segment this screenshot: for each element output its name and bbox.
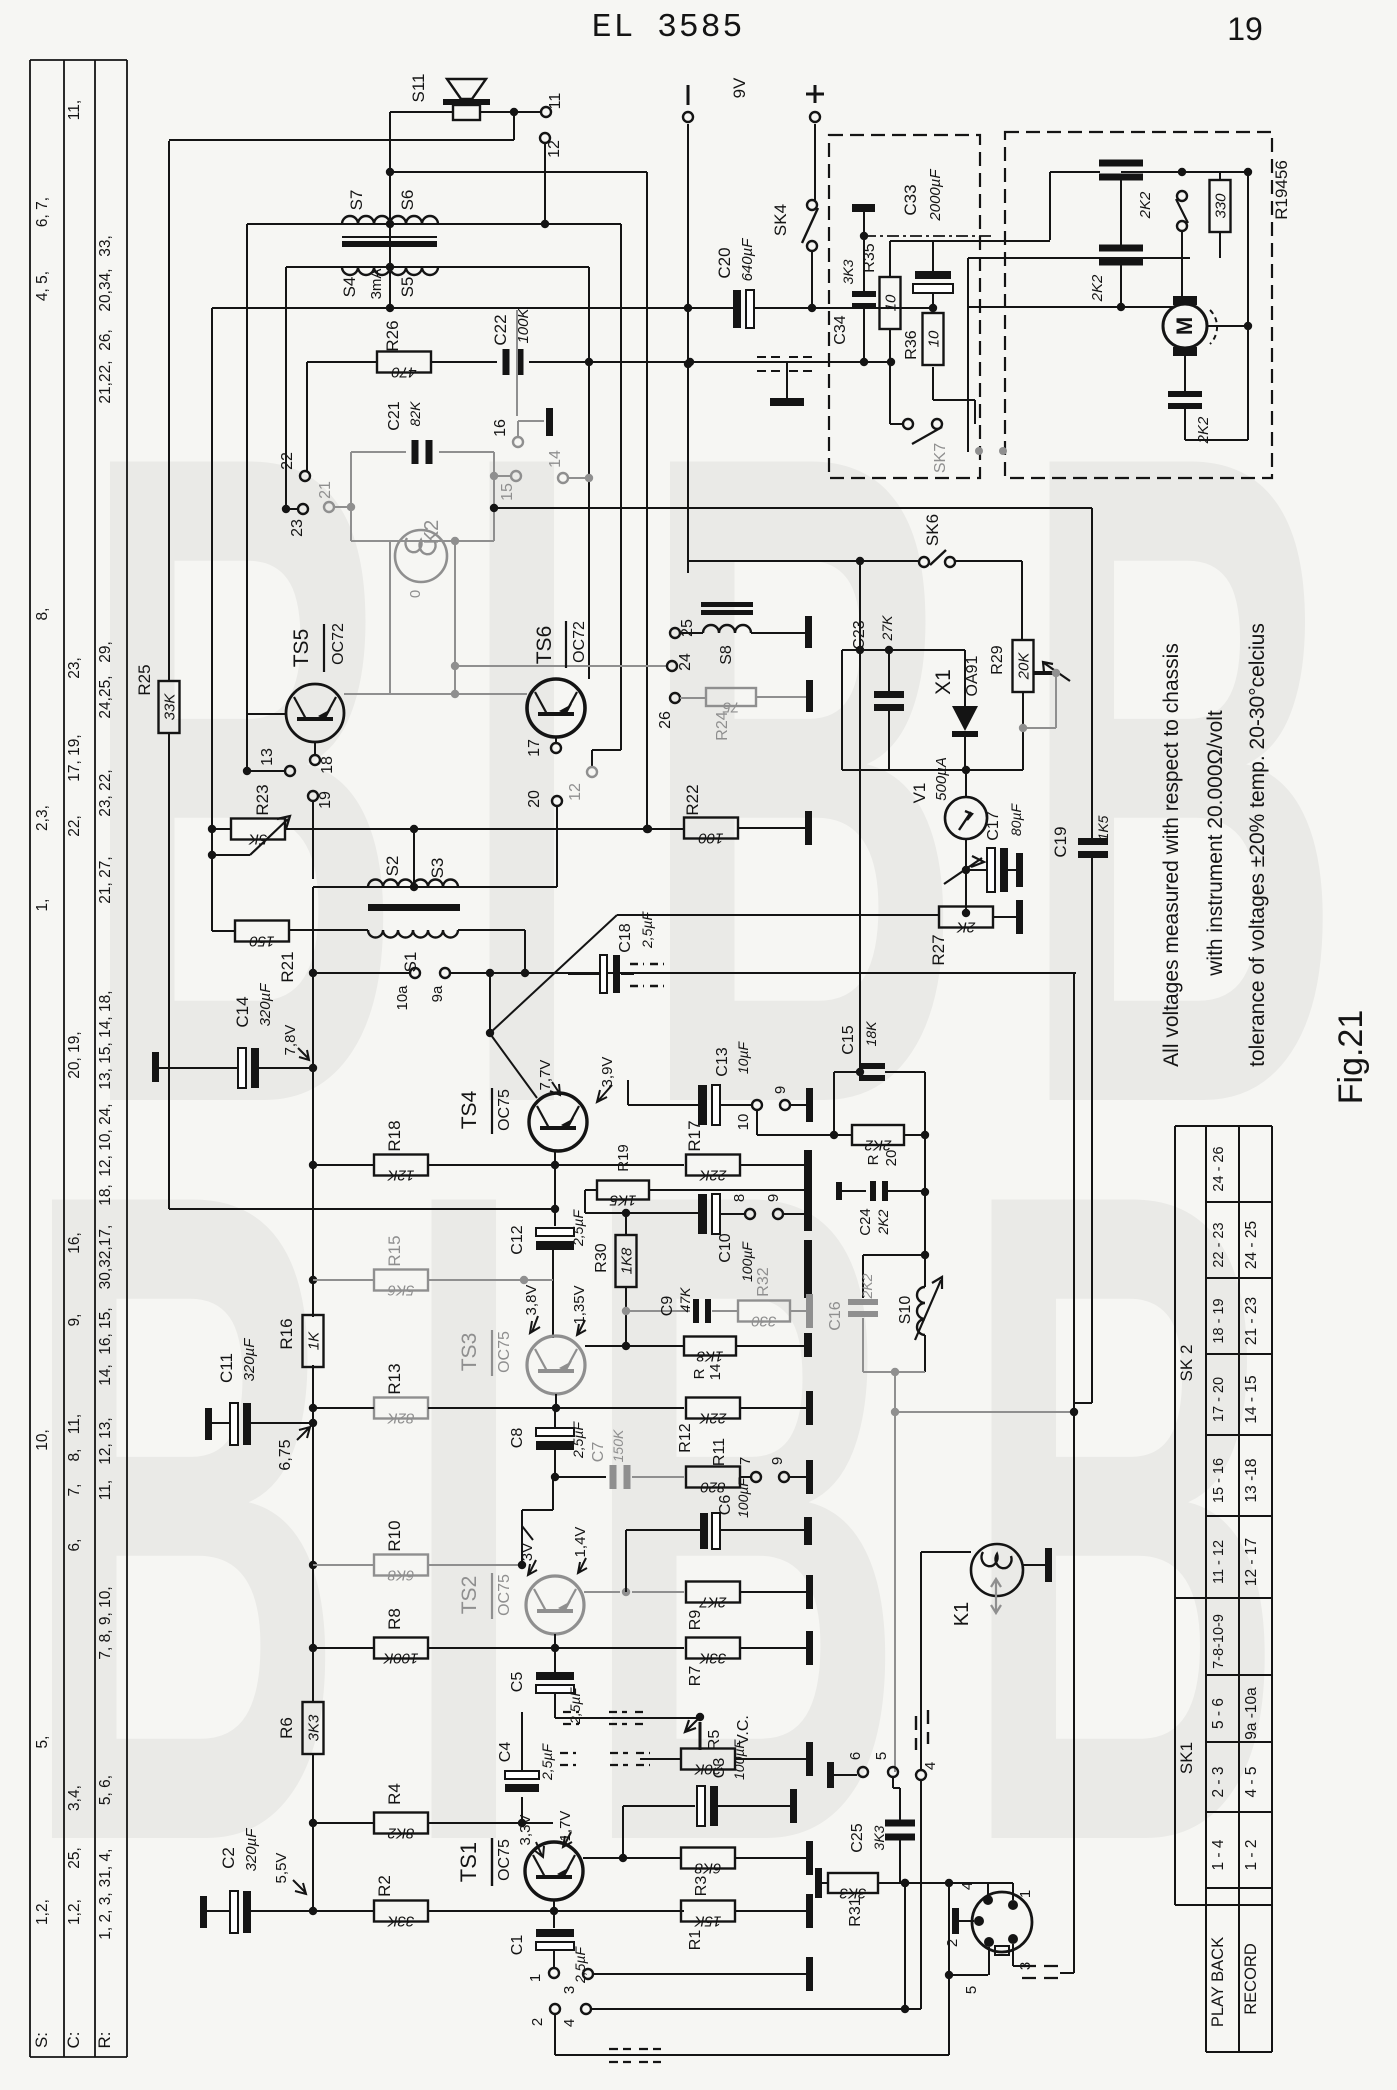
svg-text:13 -18: 13 -18 (1243, 1459, 1260, 1503)
svg-text:OC72: OC72 (330, 623, 347, 665)
svg-text:TS6: TS6 (533, 626, 556, 665)
svg-text:500µA: 500µA (933, 757, 950, 801)
svg-text:12: 12 (546, 140, 563, 158)
svg-text:24,25,: 24,25, (97, 675, 114, 718)
svg-text:1: 1 (1017, 1890, 1034, 1898)
svg-text:3,9V: 3,9V (599, 1057, 616, 1088)
svg-text:K2: K2 (421, 520, 443, 544)
svg-text:22: 22 (279, 452, 296, 470)
svg-text:82K: 82K (387, 1410, 415, 1427)
svg-text:26: 26 (657, 711, 674, 729)
svg-text:100µF: 100µF (739, 1241, 755, 1282)
svg-text:23, 22,: 23, 22, (97, 769, 114, 816)
svg-text:C14: C14 (233, 996, 252, 1027)
svg-text:1, 2, 3,: 1, 2, 3, (97, 1892, 114, 1939)
svg-text:21 - 23: 21 - 23 (1243, 1297, 1260, 1345)
svg-text:2,5µF: 2,5µF (539, 1743, 555, 1782)
svg-text:16,: 16, (66, 1232, 83, 1254)
svg-text:1,2,: 1,2, (34, 1899, 51, 1925)
svg-text:11,: 11, (97, 1480, 114, 1500)
svg-text:3: 3 (561, 1986, 578, 1994)
svg-text:16: 16 (492, 419, 509, 437)
svg-text:K1: K1 (951, 1602, 973, 1626)
svg-text:9V: 9V (730, 77, 749, 98)
svg-text:OC75: OC75 (496, 1574, 513, 1616)
svg-text:TS4: TS4 (458, 1090, 481, 1129)
svg-text:2K: 2K (956, 919, 976, 936)
svg-text:2K2: 2K2 (1137, 191, 1154, 219)
svg-text:14: 14 (707, 1364, 724, 1381)
svg-text:7,7V: 7,7V (537, 1060, 554, 1091)
svg-text:2,5µF: 2,5µF (570, 1421, 586, 1460)
svg-text:320µF: 320µF (243, 1828, 260, 1872)
svg-text:R12: R12 (677, 1423, 694, 1452)
svg-text:with instrument 20.000Ω/volt: with instrument 20.000Ω/volt (1204, 710, 1227, 977)
svg-text:9: 9 (765, 1194, 782, 1202)
svg-text:6,75: 6,75 (277, 1439, 294, 1470)
svg-text:15: 15 (499, 483, 516, 501)
svg-text:12 - 17: 12 - 17 (1243, 1538, 1260, 1586)
svg-text:22 - 23: 22 - 23 (1211, 1222, 1227, 1267)
svg-text:1,: 1, (34, 899, 51, 912)
svg-text:7, 8, 9, 10,: 7, 8, 9, 10, (97, 1586, 114, 1659)
svg-text:640µF: 640µF (739, 238, 756, 282)
svg-text:C7: C7 (590, 1442, 607, 1463)
svg-text:11,: 11, (66, 100, 83, 120)
svg-text:1K5: 1K5 (609, 1192, 636, 1209)
svg-text:20K: 20K (1016, 652, 1033, 681)
svg-text:9: 9 (769, 1457, 786, 1465)
svg-text:C11: C11 (217, 1353, 236, 1383)
svg-text:TS1: TS1 (456, 1842, 481, 1882)
svg-text:4: 4 (922, 1762, 939, 1770)
svg-text:C10: C10 (717, 1233, 734, 1262)
svg-text:R18: R18 (385, 1120, 404, 1151)
svg-text:12K: 12K (387, 1167, 415, 1184)
svg-text:4: 4 (561, 2019, 578, 2027)
svg-text:R8: R8 (385, 1608, 404, 1630)
svg-text:5K: 5K (248, 831, 267, 848)
svg-text:2K2: 2K2 (859, 1273, 875, 1299)
svg-text:1,4V: 1,4V (572, 1527, 589, 1558)
svg-text:S:: S: (32, 2032, 51, 2048)
svg-text:3,4,: 3,4, (66, 1785, 83, 1811)
svg-text:TS5: TS5 (290, 629, 313, 668)
svg-text:R27: R27 (929, 934, 948, 965)
svg-text:6K8: 6K8 (387, 1567, 414, 1584)
svg-text:R35: R35 (861, 243, 878, 272)
svg-text:R32: R32 (755, 1267, 772, 1296)
svg-text:33,: 33, (97, 235, 114, 257)
svg-text:S5: S5 (398, 277, 417, 298)
svg-text:100: 100 (698, 830, 724, 847)
svg-text:S10: S10 (897, 1296, 914, 1325)
svg-text:1 - 4: 1 - 4 (1210, 1839, 1227, 1870)
svg-text:100µF: 100µF (735, 1477, 751, 1518)
svg-text:6, 7,: 6, 7, (34, 197, 51, 227)
svg-text:20: 20 (526, 790, 543, 808)
svg-text:17: 17 (526, 739, 543, 757)
svg-text:S2: S2 (383, 856, 402, 877)
svg-text:S8: S8 (718, 645, 735, 665)
svg-text:9,: 9, (66, 1314, 83, 1327)
svg-text:tolerance of voltages ±20% te: tolerance of voltages ±20% temp. 20-30°c… (1246, 623, 1269, 1067)
svg-text:5,: 5, (34, 1736, 51, 1749)
svg-text:C2: C2 (219, 1847, 238, 1869)
svg-text:C19: C19 (1051, 826, 1070, 857)
svg-text:X1: X1 (932, 669, 955, 695)
svg-text:20,34,: 20,34, (97, 268, 114, 311)
svg-text:22K: 22K (699, 1167, 728, 1184)
svg-text:SK4: SK4 (771, 204, 790, 236)
svg-text:S4: S4 (340, 277, 359, 298)
svg-text:12, 13,: 12, 13, (97, 1417, 114, 1464)
svg-text:5: 5 (873, 1752, 890, 1760)
svg-text:30,32,17,: 30,32,17, (97, 1225, 114, 1290)
svg-text:R13: R13 (385, 1363, 404, 1394)
svg-text:R: R (865, 1154, 882, 1165)
svg-text:320µF: 320µF (241, 1338, 258, 1382)
svg-text:7: 7 (737, 1457, 754, 1465)
svg-text:5K6: 5K6 (387, 1282, 414, 1299)
svg-text:3,3V: 3,3V (517, 1815, 534, 1846)
svg-text:1: 1 (527, 1974, 544, 1982)
svg-text:2,3,: 2,3, (34, 805, 51, 831)
svg-text:C13: C13 (714, 1047, 731, 1076)
svg-text:29,: 29, (97, 641, 114, 663)
svg-text:2000µF: 2000µF (927, 169, 944, 222)
svg-text:21,22,: 21,22, (97, 360, 114, 403)
svg-text:6: 6 (847, 1752, 864, 1760)
svg-text:330: 330 (751, 1313, 777, 1330)
svg-text:21, 27,: 21, 27, (97, 856, 114, 903)
svg-text:23: 23 (289, 519, 306, 537)
svg-text:33K: 33K (387, 1913, 415, 1930)
svg-text:14,: 14, (97, 1364, 114, 1386)
svg-text:BIBB: BIBB (22, 999, 1341, 2036)
svg-text:1K: 1K (306, 1331, 323, 1350)
svg-text:S7: S7 (347, 190, 366, 211)
svg-text:14: 14 (547, 450, 564, 468)
svg-text:RECORD: RECORD (1242, 1943, 1260, 2015)
svg-text:25: 25 (679, 619, 696, 637)
svg-text:2,5µF: 2,5µF (570, 1209, 586, 1248)
svg-text:8: 8 (731, 1194, 748, 1202)
svg-text:SK7: SK7 (932, 443, 949, 473)
svg-text:24: 24 (677, 653, 694, 671)
svg-text:18: 18 (319, 756, 336, 774)
svg-text:5 - 6: 5 - 6 (1210, 1698, 1227, 1729)
svg-text:S6: S6 (398, 190, 417, 211)
svg-text:C23: C23 (851, 620, 868, 649)
svg-text:R24: R24 (714, 711, 731, 740)
svg-text:15K: 15K (694, 1913, 722, 1930)
svg-text:C1: C1 (509, 1935, 526, 1956)
svg-text:S3: S3 (428, 858, 447, 879)
svg-text:SK 2: SK 2 (1177, 1345, 1196, 1382)
svg-text:22K: 22K (699, 1410, 728, 1427)
svg-text:3K3: 3K3 (840, 259, 856, 284)
svg-text:20: 20 (883, 1150, 900, 1167)
svg-text:R2: R2 (375, 1875, 394, 1897)
svg-text:C17: C17 (985, 811, 1002, 840)
svg-text:10,: 10, (34, 1429, 51, 1451)
svg-text:S11: S11 (409, 74, 428, 103)
svg-text:R16: R16 (277, 1318, 296, 1349)
svg-text:C22: C22 (491, 314, 510, 345)
svg-text:C12: C12 (509, 1225, 526, 1254)
svg-text:33K: 33K (162, 693, 179, 721)
svg-text:R29: R29 (989, 645, 1006, 674)
svg-text:SK6: SK6 (923, 514, 942, 546)
svg-text:2: 2 (944, 1939, 961, 1947)
svg-text:17 - 20: 17 - 20 (1211, 1377, 1227, 1422)
svg-text:R31: R31 (847, 1897, 864, 1926)
svg-text:C4: C4 (497, 1742, 514, 1763)
svg-text:5,5V: 5,5V (273, 1853, 290, 1884)
svg-text:100µF: 100µF (731, 1739, 747, 1780)
svg-text:C6: C6 (717, 1495, 734, 1516)
svg-text:11,: 11, (66, 1414, 83, 1434)
svg-text:1K5: 1K5 (1095, 815, 1111, 840)
svg-text:5: 5 (963, 1986, 980, 1994)
svg-text:470: 470 (391, 364, 417, 381)
svg-text:18,: 18, (97, 1184, 114, 1206)
svg-text:31, 4,: 31, 4, (97, 1849, 114, 1888)
svg-text:R:: R: (95, 2032, 114, 2049)
svg-text:R26: R26 (383, 320, 402, 351)
svg-text:OC72: OC72 (571, 621, 588, 663)
svg-text:R15: R15 (385, 1235, 404, 1266)
svg-text:2,5µF: 2,5µF (639, 911, 655, 950)
svg-text:26,: 26, (97, 329, 114, 351)
svg-text:C24: C24 (857, 1208, 874, 1236)
svg-text:C15: C15 (840, 1025, 857, 1054)
svg-text:7,: 7, (66, 1484, 83, 1497)
svg-text:R22: R22 (683, 784, 702, 815)
svg-text:1K8: 1K8 (619, 1247, 636, 1274)
svg-text:TS2: TS2 (458, 1576, 481, 1615)
svg-text:3mA: 3mA (368, 269, 385, 300)
svg-text:Fig.21: Fig.21 (1332, 1010, 1370, 1105)
svg-text:PLAY BACK: PLAY BACK (1209, 1937, 1227, 2027)
svg-text:1,2,: 1,2, (66, 1899, 83, 1925)
svg-text:33K: 33K (699, 1650, 727, 1667)
svg-text:R25: R25 (135, 664, 154, 695)
svg-text:R11: R11 (711, 1438, 728, 1466)
svg-text:2 - 3: 2 - 3 (1210, 1766, 1227, 1797)
svg-text:12, 10, 24,: 12, 10, 24, (97, 1103, 114, 1176)
svg-text:R5: R5 (706, 1730, 723, 1751)
svg-text:R19: R19 (615, 1144, 632, 1172)
svg-text:14 - 15: 14 - 15 (1243, 1375, 1260, 1423)
svg-text:R6: R6 (277, 1717, 296, 1739)
svg-text:8,: 8, (34, 608, 51, 621)
svg-text:TS3: TS3 (458, 1333, 481, 1372)
svg-text:C8: C8 (509, 1428, 526, 1449)
svg-text:0: 0 (407, 590, 424, 598)
svg-text:8K2: 8K2 (387, 1825, 414, 1842)
svg-text:2K2: 2K2 (875, 1209, 891, 1235)
svg-text:1 - 2: 1 - 2 (1243, 1839, 1260, 1870)
svg-text:C21: C21 (386, 401, 403, 430)
svg-text:7-8-10-9: 7-8-10-9 (1211, 1614, 1227, 1669)
svg-text:100K: 100K (382, 1650, 418, 1667)
svg-text:10µF: 10µF (735, 1040, 751, 1074)
svg-text:OC75: OC75 (496, 1089, 513, 1131)
svg-text:R3: R3 (693, 1876, 710, 1897)
svg-text:R30: R30 (593, 1243, 610, 1272)
svg-text:3,8V: 3,8V (523, 1285, 540, 1316)
svg-text:R9: R9 (687, 1610, 704, 1631)
svg-text:18 - 19: 18 - 19 (1211, 1298, 1227, 1343)
svg-text:2K2: 2K2 (1089, 274, 1106, 302)
svg-text:10: 10 (883, 294, 900, 311)
svg-text:4, 5,: 4, 5, (34, 271, 51, 301)
svg-text:3K3: 3K3 (306, 1714, 323, 1741)
svg-text:C9: C9 (659, 1296, 676, 1317)
svg-text:3K3: 3K3 (871, 1825, 887, 1850)
svg-text:C34: C34 (832, 315, 849, 344)
svg-text:1,35V: 1,35V (571, 1285, 588, 1324)
svg-text:820: 820 (700, 1479, 726, 1496)
svg-text:OA91: OA91 (964, 655, 981, 696)
svg-text:C3: C3 (711, 1758, 728, 1779)
svg-text:2: 2 (529, 2018, 546, 2026)
svg-text:80µF: 80µF (1008, 802, 1024, 836)
svg-text:12: 12 (567, 783, 584, 801)
svg-text:R10: R10 (385, 1520, 404, 1551)
svg-text:R19456: R19456 (1272, 160, 1291, 220)
svg-text:16, 15,: 16, 15, (97, 1307, 114, 1354)
svg-text:24 - 26: 24 - 26 (1211, 1146, 1227, 1191)
svg-text:24 - 25: 24 - 25 (1243, 1221, 1260, 1269)
svg-text:V1: V1 (910, 783, 929, 804)
svg-text:11 - 12: 11 - 12 (1211, 1540, 1227, 1584)
svg-text:150: 150 (249, 933, 275, 950)
svg-text:21: 21 (317, 481, 334, 499)
svg-text:C25: C25 (849, 1823, 866, 1852)
svg-text:R7: R7 (687, 1666, 704, 1687)
svg-text:7,8V: 7,8V (282, 1025, 299, 1056)
svg-text:9: 9 (772, 1086, 789, 1094)
svg-text:18K: 18K (863, 1021, 879, 1047)
svg-text:R1: R1 (687, 1930, 704, 1951)
svg-text:19: 19 (317, 791, 334, 809)
svg-text:EL 3585: EL 3585 (592, 9, 745, 46)
svg-text:OC75: OC75 (496, 1331, 513, 1373)
svg-text:13, 15, 14, 18,: 13, 15, 14, 18, (97, 990, 114, 1089)
svg-text:47K: 47K (677, 1287, 693, 1313)
svg-text:6K8: 6K8 (694, 1860, 721, 1877)
svg-text:19: 19 (1227, 11, 1263, 47)
svg-text:9a -10a: 9a -10a (1243, 1687, 1260, 1740)
svg-text:R4: R4 (385, 1783, 404, 1805)
svg-text:3V: 3V (519, 1543, 536, 1561)
svg-text:330: 330 (1213, 193, 1230, 219)
svg-text:82K: 82K (407, 401, 423, 427)
svg-text:2,5µF: 2,5µF (567, 1687, 583, 1726)
svg-text:C5: C5 (509, 1672, 526, 1693)
svg-text:23,: 23, (66, 657, 83, 679)
svg-text:R21: R21 (278, 951, 297, 982)
svg-text:9a: 9a (429, 985, 446, 1002)
svg-text:C18: C18 (617, 923, 634, 952)
svg-text:22,: 22, (66, 815, 83, 837)
svg-text:All voltages measured with res: All voltages measured with respect to ch… (1160, 643, 1183, 1067)
svg-text:10a: 10a (394, 985, 411, 1011)
svg-text:C16: C16 (827, 1301, 844, 1330)
svg-text:R17: R17 (685, 1120, 704, 1151)
svg-text:C33: C33 (901, 184, 920, 215)
svg-text:SK1: SK1 (1177, 1742, 1196, 1774)
svg-text:13: 13 (259, 748, 276, 766)
svg-text:C20: C20 (715, 247, 734, 278)
svg-text:10: 10 (735, 1114, 752, 1131)
svg-text:4 - 5: 4 - 5 (1243, 1766, 1260, 1797)
svg-text:27K: 27K (879, 615, 895, 642)
svg-text:150K: 150K (610, 1429, 626, 1462)
svg-text:320µF: 320µF (257, 983, 274, 1027)
svg-text:R: R (691, 1368, 708, 1379)
svg-text:17, 19,: 17, 19, (66, 734, 83, 781)
svg-text:1K8: 1K8 (696, 1348, 723, 1365)
svg-text:M: M (1172, 317, 1197, 335)
svg-text:20, 19,: 20, 19, (66, 1031, 83, 1078)
svg-text:10: 10 (926, 330, 943, 347)
svg-text:4: 4 (959, 1882, 976, 1890)
svg-text:OC75: OC75 (496, 1839, 513, 1881)
svg-text:6,: 6, (66, 1539, 83, 1552)
svg-text:R23: R23 (253, 784, 272, 815)
svg-text:C:: C: (64, 2032, 83, 2049)
svg-text:25,: 25, (66, 1847, 83, 1869)
svg-text:2K7: 2K7 (699, 1594, 727, 1611)
svg-text:11: 11 (547, 93, 564, 110)
svg-text:15 - 16: 15 - 16 (1211, 1458, 1227, 1503)
svg-text:8,: 8, (66, 1449, 83, 1462)
svg-text:R36: R36 (903, 330, 920, 359)
svg-text:5, 6,: 5, 6, (97, 1775, 114, 1805)
